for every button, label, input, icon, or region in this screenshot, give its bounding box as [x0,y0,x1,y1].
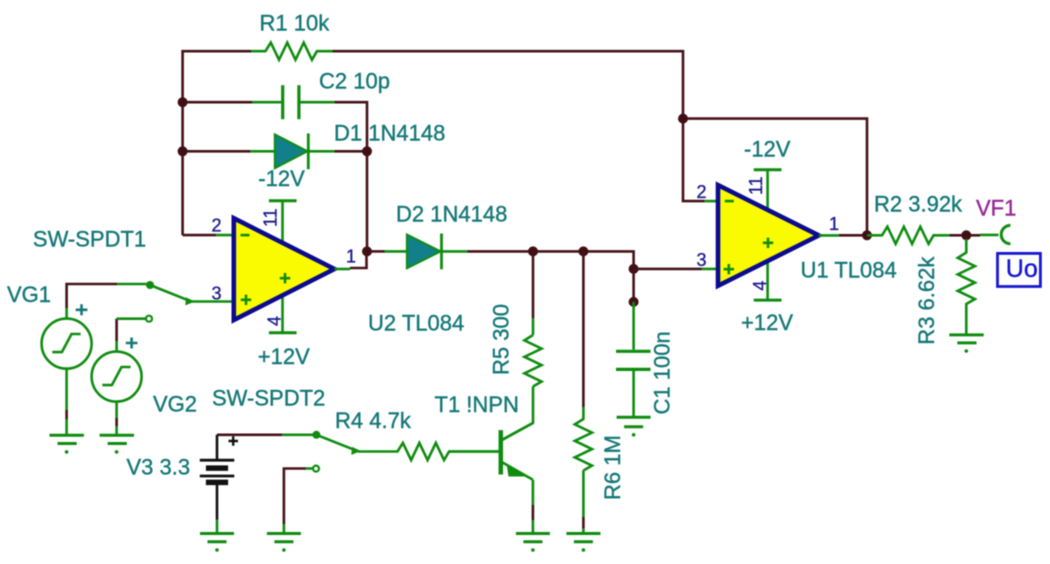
battery V3 [200,435,238,520]
svg-text:V3 3.3: V3 3.3 [127,455,191,480]
junction dot C1 top [629,297,639,307]
svg-text:+12V: +12V [741,310,793,335]
svg-text:VF1: VF1 [976,195,1016,220]
junction dot U1 feedback [678,114,688,124]
wire U1 output [819,234,839,237]
wire VG2 top [115,319,118,341]
wire R2 to node [949,234,962,237]
svg-text:R4 4.7k: R4 4.7k [335,408,412,433]
svg-text:D1 1N4148: D1 1N4148 [334,121,445,146]
wire C1 drop [632,269,635,302]
svg-text:1: 1 [346,246,356,266]
wire D1 branch [183,151,367,251]
ground VG1 [50,435,84,443]
switch SW-SPDT2 [282,435,356,472]
junction dot R6 top [578,246,588,256]
resistor R6 [575,407,592,517]
resistor R1 [251,43,333,60]
diode D2 [385,234,468,270]
svg-text:R1 10k: R1 10k [260,11,331,36]
ground R6 [566,534,600,542]
plus VG1 [76,304,88,315]
op-amp U1 [718,185,819,286]
svg-text:U1 TL084: U1 TL084 [801,258,897,283]
wire R5 top [532,251,535,318]
switch SW-SPDT1 [117,284,191,322]
resistor R4 [358,443,499,460]
svg-text:R6 1M: R6 1M [600,435,625,500]
wire SPDT2 unused throw [284,469,306,525]
ground SPDT2 [267,534,301,542]
wire top feedback R1 loop [183,51,683,235]
wire U2 pin3 [192,300,234,303]
junction dot output node [961,230,971,240]
junction dot left C2 [178,97,188,107]
plus VG2 [126,338,138,349]
junction dot U2 output node [362,246,372,256]
source VG2 [92,341,142,418]
wire T1 emitter [532,480,535,505]
capacitor C1 [616,302,651,417]
svg-text:SW-SPDT1: SW-SPDT1 [33,226,146,251]
resistor R5 [502,318,542,440]
diode D1 [251,133,335,169]
junction dot right D1 [362,146,372,156]
ground C1 [617,417,651,427]
svg-text:11: 11 [746,176,766,195]
transistor T1 [449,423,533,480]
wire node to probe [970,234,980,237]
label Uo box [998,253,1041,286]
svg-text:3: 3 [697,250,707,270]
svg-text:+12V: +12V [258,344,310,369]
svg-text:T1 !NPN: T1 !NPN [435,392,519,417]
wire main line right [467,251,633,269]
svg-text:4: 4 [265,316,285,326]
svg-text:R5 300: R5 300 [489,304,514,375]
ground T1 [516,534,550,542]
wire to U1 pin3 [634,268,702,271]
svg-text:11: 11 [261,208,281,227]
resistor R3 [958,239,975,335]
svg-text:SW-SPDT2: SW-SPDT2 [212,386,325,411]
junction dot left D1 [178,146,188,156]
junction dot R5 top [528,246,538,256]
source VG1 [42,308,92,410]
svg-text:R2 3.92k: R2 3.92k [874,192,963,217]
ground V3 [200,534,234,542]
junction dot U1 pin3 corner [629,264,639,274]
wire VG1 top [67,284,117,308]
svg-text:4: 4 [750,281,770,291]
wire VG1 bottom [65,410,68,419]
ground VG2 [100,435,134,443]
svg-text:1: 1 [829,214,839,234]
wire C2 branch [183,102,367,151]
wire U2 pin2 [183,234,217,237]
svg-text:VG2: VG2 [153,392,197,417]
svg-text:R3 6.62k: R3 6.62k [914,256,939,345]
svg-text:-12V: -12V [258,166,305,191]
wire main node line [370,250,385,253]
op-amp U2 power rails [269,201,297,333]
svg-text:Uo: Uo [1006,255,1038,283]
svg-text:U2 TL084: U2 TL084 [368,311,464,336]
resistor R2 [867,227,949,244]
svg-text:C2 10p: C2 10p [319,69,390,94]
wire VG2 bottom [115,418,118,426]
wire U1 pin2 lead [705,200,718,203]
op-amp U2 [234,218,335,320]
wire R6 top [582,251,585,407]
junction dot U1 output [862,230,872,240]
wire U2 output [334,268,350,271]
probe VF1 [1001,225,1010,243]
svg-text:C1 100n: C1 100n [650,331,675,414]
svg-text:2: 2 [212,215,222,235]
svg-text:VG1: VG1 [7,282,51,307]
wire battery to switch [217,433,282,436]
svg-text:2: 2 [697,182,707,202]
capacitor C2 [252,85,334,119]
ground R3 [949,335,983,343]
svg-text:-12V: -12V [744,137,791,162]
svg-text:3: 3 [212,283,222,303]
wire U1 feedback [683,119,867,236]
op-amp U1 power rails [754,170,782,300]
svg-text:D2 1N4148: D2 1N4148 [396,202,507,227]
